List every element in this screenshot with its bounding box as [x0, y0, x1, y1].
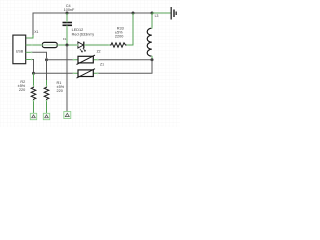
emission arrows [80, 48, 86, 52]
node: R33 branch junction [132, 12, 135, 15]
svg-text:USB: USB [16, 49, 24, 53]
node: row A / C4 bottom junction [66, 44, 69, 47]
svg-text:Z2: Z2 [97, 49, 101, 53]
wire: fuse to node (green) [58, 44, 78, 46]
wire: row C left (dark) [34, 72, 74, 74]
varistor Z2 [74, 49, 101, 64]
svg-text:100nF: 100nF [64, 8, 75, 12]
wire: row B left (dark) [47, 59, 74, 61]
ground (R2) [30, 113, 36, 119]
node: row B / L3 junction [151, 58, 154, 61]
wire: pin4 to row C corner (dark) [31, 60, 33, 74]
wire: top rail from X1 vertical to L3 node (dark) [33, 13, 152, 36]
ground (centre) [64, 112, 71, 119]
svg-text:L3: L3 [155, 14, 159, 18]
wire: LED to R33 (green) [85, 44, 110, 46]
resistor R1 [44, 80, 64, 113]
svg-text:2200: 2200 [115, 35, 123, 39]
resistor R33 [110, 27, 128, 48]
svg-text:220: 220 [19, 88, 25, 92]
wire: centre vertical node to ground (dark) [66, 45, 68, 112]
LED12 [72, 28, 95, 52]
node: row C left junction [32, 72, 35, 75]
resistor R2 [18, 73, 36, 113]
ground (R1) [43, 113, 49, 119]
USB connector X1 [13, 35, 32, 64]
node: C4 top junction [66, 12, 69, 15]
ground [171, 7, 176, 20]
fuse F1 [42, 42, 57, 47]
svg-text:F1: F1 [63, 37, 67, 41]
node: L3 top junction [151, 12, 154, 15]
wire: R33 to riser (green) [127, 13, 133, 45]
pin terminal dots [31, 21, 153, 102]
inductor L3 [147, 13, 158, 60]
pin stubs [26, 45, 32, 60]
node: row B left junction [45, 58, 48, 61]
wire: rail to ground symbol (green) [152, 12, 171, 14]
svg-text:Red (633nm): Red (633nm) [72, 32, 95, 36]
wire: pin1 stub USB to rail corner [26, 35, 33, 39]
wire: row B right (dark) [98, 59, 153, 61]
varistor Z1 [74, 62, 105, 78]
svg-text:220: 220 [57, 89, 63, 93]
capacitor C4 [63, 4, 76, 45]
svg-text:X1: X1 [34, 30, 38, 34]
wire: pin3 to row B corner (dark) [31, 52, 46, 58]
wire: row B junction down through row C to R1 (dark) [46, 60, 48, 80]
svg-text:Z1: Z1 [100, 62, 104, 66]
wire: row A USB to fuse (green) [32, 44, 68, 46]
wire: L3 node down to row C (dark) [98, 60, 153, 74]
